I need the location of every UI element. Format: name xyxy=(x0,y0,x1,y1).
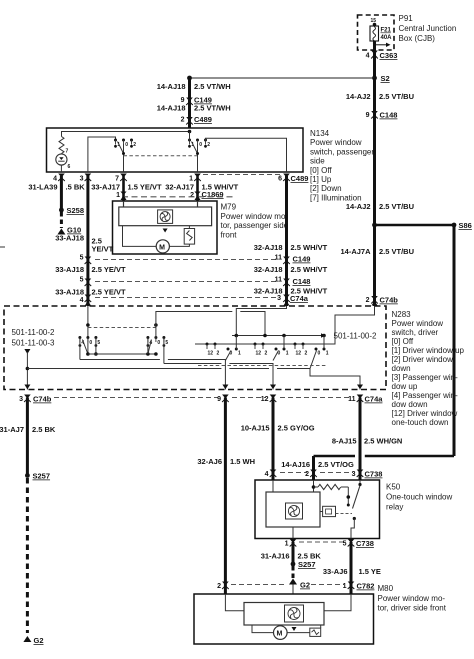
wire: L1 contact 5 drop xyxy=(95,338,97,355)
ground G2 (left) xyxy=(23,636,43,645)
wire: M80 pin 2 to armature xyxy=(225,594,244,611)
pin 1 exit (C489) xyxy=(189,174,201,183)
mechanical link (dashed) between switch poles xyxy=(124,155,198,157)
wire 14-AJ2 2.5 VT/BU (S2 down to C148) xyxy=(373,78,376,225)
svg-text:7: 7 xyxy=(66,149,69,155)
svg-text:33-AJ17: 33-AJ17 xyxy=(91,183,120,192)
node: VT/WH branch top xyxy=(187,76,192,81)
entry arrow M79 pin 1 xyxy=(121,195,127,200)
wire: breaker to armature xyxy=(188,226,190,229)
wire: M80 pin 1 to armature xyxy=(324,594,351,611)
C74b crossing pin 3 xyxy=(19,395,52,404)
mechanical link (dashed) switch L1-L2 xyxy=(88,327,156,329)
wire: armature to motor loop left xyxy=(123,226,157,247)
power window switch N283 (driver) dashed box xyxy=(4,306,386,390)
switch D3 (driver one-touch, contacts 12-2-0-1) xyxy=(294,343,329,369)
svg-text:1: 1 xyxy=(286,351,289,357)
label M79 power window motor passenger xyxy=(221,203,289,240)
entry arrow N283 pin 4 xyxy=(85,301,91,306)
svg-text:2.5 VT/BU: 2.5 VT/BU xyxy=(379,247,414,256)
connector C74b row below N283 (dashed) xyxy=(54,397,218,399)
svg-text:31-LA39: 31-LA39 xyxy=(28,183,57,192)
svg-text:Central Junction: Central Junction xyxy=(399,24,457,33)
C74a crossing pin 11 xyxy=(348,395,383,404)
ground G10 xyxy=(57,226,81,235)
svg-text:tor, passenger side: tor, passenger side xyxy=(221,221,289,230)
svg-text:2: 2 xyxy=(265,351,268,357)
M80 motor fan icon xyxy=(285,605,304,622)
svg-text:1: 1 xyxy=(285,541,289,548)
svg-text:P91: P91 xyxy=(399,14,414,23)
wire: switch 2 contact 2 to pin 6 xyxy=(206,138,287,172)
dashed boundary line (door shell, left) xyxy=(122,196,235,198)
node: fuse top junction xyxy=(373,23,377,27)
svg-text:Power window: Power window xyxy=(310,138,362,147)
label N134 power window switch passenger xyxy=(310,129,374,202)
svg-text:501-11-00-2: 501-11-00-2 xyxy=(12,328,56,337)
wire 8-AJ15 2.5 WH/GN (C74a pin 11 to K50 pin 3) xyxy=(359,398,362,481)
wire: breaker to armature (M80) xyxy=(320,625,322,628)
connector C74a row (dashed) xyxy=(95,297,276,299)
connector C782 row (dashed) xyxy=(231,584,286,586)
wires: pins into armature xyxy=(123,201,125,207)
resistor (illumination dropping) xyxy=(59,137,69,155)
svg-text:4: 4 xyxy=(265,471,269,478)
wire: S2 branch left to VT/WH drop xyxy=(190,77,375,79)
node S257 (left) xyxy=(25,472,50,481)
wire 31-AJ16 2.5 BK (K50 pin 1 to S257) xyxy=(292,542,295,564)
svg-text:0: 0 xyxy=(89,340,92,346)
svg-text:switch, driver: switch, driver xyxy=(392,328,439,337)
central junction box P91 (dashed enclosure) xyxy=(358,15,395,50)
wire: rail to pin 9 xyxy=(80,359,160,361)
svg-text:Power window mo-: Power window mo- xyxy=(378,594,446,603)
wire: S258 to G10 (dashed continuation) xyxy=(60,212,63,228)
svg-text:relay: relay xyxy=(386,503,403,512)
wire: coil to pin 1 xyxy=(292,527,294,539)
svg-text:M: M xyxy=(277,631,283,638)
svg-text:501-11-00-3: 501-11-00-3 xyxy=(12,339,56,348)
pin 6 exit C489 xyxy=(278,174,308,184)
svg-text:S86: S86 xyxy=(459,221,472,230)
svg-text:33-AJ18: 33-AJ18 xyxy=(55,234,84,243)
svg-text:5: 5 xyxy=(165,340,168,346)
svg-text:2.5 GY/OG: 2.5 GY/OG xyxy=(278,424,315,433)
switch D2 (driver, contacts 12-2-0-1) xyxy=(254,343,289,361)
entry arrow N283 pin 2 xyxy=(372,301,378,306)
svg-text:2.5 VT/BU: 2.5 VT/BU xyxy=(379,92,414,101)
svg-text:2.5 WH/VT: 2.5 WH/VT xyxy=(291,243,328,252)
svg-text:C489: C489 xyxy=(291,174,309,183)
C74a crossing pin 4 (YE/VT) xyxy=(80,295,92,305)
svg-text:1.5 YE: 1.5 YE xyxy=(359,567,381,576)
wire: S257 to G2 (dashed continuation) xyxy=(26,478,29,633)
svg-text:2: 2 xyxy=(181,117,185,124)
connector C489 pin 2 (top) xyxy=(181,115,212,125)
C738 crossing pin 5 xyxy=(343,539,374,548)
svg-text:[2] Driver window: [2] Driver window xyxy=(392,355,454,364)
svg-text:12: 12 xyxy=(256,351,262,357)
svg-text:One-touch window: One-touch window xyxy=(386,493,452,502)
node S257 (right) xyxy=(291,560,316,569)
svg-text:one-touch down: one-touch down xyxy=(392,418,449,427)
wire 32-AJ6 1.5 WH (N283 pin 9 to M80 pin 2) xyxy=(224,398,227,595)
svg-text:G2: G2 xyxy=(34,636,44,645)
svg-text:14-AJ2: 14-AJ2 xyxy=(346,92,371,101)
svg-text:11: 11 xyxy=(348,396,356,403)
svg-text:32-AJ6: 32-AJ6 xyxy=(197,457,222,466)
svg-text:2.5 BK: 2.5 BK xyxy=(32,425,56,434)
svg-text:7: 7 xyxy=(115,176,119,183)
fuse F21 40A xyxy=(370,26,392,41)
svg-text:C363: C363 xyxy=(380,51,398,60)
svg-text:12: 12 xyxy=(261,396,269,403)
svg-text:C74a: C74a xyxy=(290,294,309,303)
svg-text:6: 6 xyxy=(278,176,282,183)
C738 crossing pin 3 xyxy=(352,470,383,479)
svg-text:1: 1 xyxy=(116,192,120,199)
M79 armature block xyxy=(119,207,212,226)
K50 relay coil box xyxy=(266,492,320,527)
wire: S257 to G2 (dashed) xyxy=(292,566,295,579)
svg-text:C738: C738 xyxy=(365,470,383,479)
relay switch (one-touch contact) xyxy=(353,483,362,520)
connector C738 bottom row (dashed) xyxy=(299,541,344,543)
C782 crossing pin 2 xyxy=(217,582,229,591)
svg-text:3: 3 xyxy=(277,295,281,302)
svg-text:12: 12 xyxy=(296,351,302,357)
svg-text:0: 0 xyxy=(157,340,160,346)
connector crossing on YE/VT wire at C1869 row xyxy=(120,192,126,196)
svg-text:5: 5 xyxy=(80,255,84,262)
circuit breaker (M79) xyxy=(184,229,194,245)
connector C363 pin 4 xyxy=(366,51,398,61)
svg-text:2: 2 xyxy=(207,142,210,148)
svg-text:14-AJ7A: 14-AJ7A xyxy=(340,247,371,256)
svg-text:32-AJ18: 32-AJ18 xyxy=(254,243,283,252)
wire 31-LA39 .5 BK (pin 4 to S258) xyxy=(60,176,63,210)
circuit breaker (M80) xyxy=(310,628,321,636)
svg-text:.5 BK: .5 BK xyxy=(66,183,86,192)
svg-text:4: 4 xyxy=(53,176,57,183)
label M80 power window motor driver xyxy=(378,584,447,613)
exit arrow N283 pin 9 xyxy=(222,385,228,390)
C738 crossing pin 2 xyxy=(305,470,317,479)
svg-text:2: 2 xyxy=(133,142,136,148)
svg-text:9: 9 xyxy=(366,112,370,119)
wire: N283 pin 4 riser to driver-pass switch xyxy=(87,306,89,354)
svg-text:1.5 WH: 1.5 WH xyxy=(230,457,255,466)
svg-text:0: 0 xyxy=(318,351,321,357)
svg-text:switch, passenger: switch, passenger xyxy=(310,147,374,156)
wire: armature to motor loop left (M80) xyxy=(252,625,273,633)
svg-text:4: 4 xyxy=(80,297,84,304)
label N283 power window switch driver xyxy=(392,310,465,427)
svg-text:2.5 YE/VT: 2.5 YE/VT xyxy=(92,265,126,274)
connector C74b pin 2 xyxy=(366,296,399,305)
svg-text:14-AJ18: 14-AJ18 xyxy=(157,82,186,91)
wire: pin 3 riser to switch 1 contact 1 xyxy=(88,137,116,172)
svg-text:N134: N134 xyxy=(310,129,330,138)
power window motor M80 box xyxy=(194,594,374,644)
svg-text:4: 4 xyxy=(366,53,370,60)
svg-text:S257: S257 xyxy=(33,472,51,481)
svg-text:M79: M79 xyxy=(221,203,237,212)
svg-text:3: 3 xyxy=(19,396,23,403)
svg-text:501-11-00-2: 501-11-00-2 xyxy=(334,332,378,341)
connector C148 pin 9 xyxy=(366,111,398,120)
motor M (passenger) xyxy=(156,240,169,253)
switch 1 (window up/down, contacts 1-0-2) xyxy=(114,139,136,154)
K50 coil fan icon xyxy=(286,503,303,519)
svg-text:0: 0 xyxy=(125,142,128,148)
motor M (driver) xyxy=(274,626,288,640)
svg-text:C74b: C74b xyxy=(380,296,399,305)
switch L2 (passenger window, contacts 4-0-5) xyxy=(146,336,168,354)
svg-text:1: 1 xyxy=(343,583,347,590)
svg-text:33-AJ18: 33-AJ18 xyxy=(55,265,84,274)
svg-text:8-AJ15: 8-AJ15 xyxy=(332,437,357,446)
node: entry junction inside N134 xyxy=(188,130,192,134)
svg-text:[1] Up: [1] Up xyxy=(310,175,332,184)
svg-text:Power window: Power window xyxy=(392,319,444,328)
svg-text:14-AJ16: 14-AJ16 xyxy=(281,460,310,469)
svg-text:1: 1 xyxy=(189,176,193,183)
connector C149 pin 9 xyxy=(181,96,212,106)
C149 crossing pin 5 (YE/VT) xyxy=(80,255,92,265)
label 501-11-00-2 / 501-11-00-3 (left refs) xyxy=(12,328,56,348)
node: S86 branch junction xyxy=(372,223,377,228)
svg-text:[3] Passenger win-: [3] Passenger win- xyxy=(392,373,459,382)
svg-text:dow up: dow up xyxy=(392,382,418,391)
power window switch N134 (passenger side) box xyxy=(47,128,304,172)
wire 14-AJ16 2.5 VT/OG (S86 branch to K50 pin 2) xyxy=(312,456,315,480)
resistor (K50) xyxy=(314,484,349,489)
wire: resistor branch to fixed contact xyxy=(347,487,349,505)
svg-text:front: front xyxy=(221,230,238,239)
svg-text:S257: S257 xyxy=(298,560,316,569)
one-touch window relay K50 box xyxy=(255,480,380,539)
svg-text:2: 2 xyxy=(217,351,220,357)
svg-text:M: M xyxy=(159,244,165,251)
exit arrow N283 pin 12 xyxy=(270,385,276,390)
svg-text:1: 1 xyxy=(238,351,241,357)
wire: N134 internal feed rail xyxy=(62,132,190,137)
wire 33-AJ17 1.5 YE/VT (N134 pin 7 to M79 pin 1) xyxy=(122,176,125,201)
entry arrow N283 pin 3 xyxy=(284,301,290,306)
svg-text:C738: C738 xyxy=(356,539,374,548)
svg-text:40A: 40A xyxy=(381,35,393,41)
wire: fuse to C363 to S2 (VT/BU feed) xyxy=(373,41,376,78)
svg-text:C74b: C74b xyxy=(33,395,52,404)
connector C738 top row (dashed) xyxy=(280,472,307,474)
svg-text:C489: C489 xyxy=(194,115,212,124)
svg-text:0: 0 xyxy=(199,142,202,148)
svg-text:C1869: C1869 xyxy=(202,190,224,199)
wire: L1 contact 4 drop xyxy=(79,338,81,360)
svg-text:[7] Illumination: [7] Illumination xyxy=(310,193,362,202)
svg-text:14-AJ18: 14-AJ18 xyxy=(157,104,186,113)
svg-text:C148: C148 xyxy=(380,111,398,120)
wire: D2 contact 1 riser xyxy=(283,336,285,350)
crossing pin 9 xyxy=(217,395,229,404)
svg-text:2: 2 xyxy=(217,583,221,590)
wire 31-AJ7 2.5 BK (N283 pin 3 to S257) xyxy=(26,398,29,476)
wire: N283 pin 2 feed (one-touch rail) xyxy=(195,306,375,344)
svg-text:2.5 YE/VT: 2.5 YE/VT xyxy=(92,288,126,297)
wire: D1 contact 1 riser xyxy=(235,336,237,350)
wire S86 vertical right edge down xyxy=(453,225,456,456)
svg-text:14-AJ2: 14-AJ2 xyxy=(346,202,371,211)
wire: lamp to pin 4 xyxy=(60,165,62,172)
svg-text:2.5 WH/VT: 2.5 WH/VT xyxy=(291,265,328,274)
svg-text:dow down: dow down xyxy=(392,400,428,409)
svg-text:side: side xyxy=(310,157,325,166)
svg-text:[0] Off: [0] Off xyxy=(392,337,414,346)
svg-text:F21: F21 xyxy=(381,28,392,34)
brush mark under armature xyxy=(163,229,168,233)
svg-text:2: 2 xyxy=(305,471,309,478)
wire: G2 to M80 case xyxy=(292,585,294,595)
M79 motor fan icon xyxy=(158,210,173,224)
switch 2 (contacts 1-0-2) xyxy=(188,139,210,154)
svg-text:33-AJ18: 33-AJ18 xyxy=(55,288,84,297)
node S2 xyxy=(372,74,390,83)
svg-text:2.5 VT/WH: 2.5 VT/WH xyxy=(194,82,231,91)
arrow to other circuits (left) xyxy=(24,349,30,354)
svg-text:11: 11 xyxy=(275,255,283,262)
switch L1 (passenger window, contacts 4-0-5) xyxy=(78,336,100,354)
svg-text:down: down xyxy=(392,364,411,373)
svg-text:9: 9 xyxy=(217,396,221,403)
wire: L2 center riser to top rail xyxy=(156,312,232,338)
M80 armature block xyxy=(244,603,324,626)
mechanical link (dashed) D1-D2-D3 xyxy=(198,365,326,367)
wire: L2 contact 5 drop to rail xyxy=(163,338,165,364)
svg-text:M80: M80 xyxy=(378,584,394,593)
svg-text:2: 2 xyxy=(190,192,194,199)
svg-text:C782: C782 xyxy=(357,582,375,591)
svg-text:C149: C149 xyxy=(293,255,311,264)
wire: left ref down to ground rail xyxy=(26,352,28,390)
wire: feed rail with arrow 501-11-00-2 xyxy=(232,332,377,341)
wire: K50 pin 3 to switch pivot xyxy=(359,480,361,485)
svg-text:6: 6 xyxy=(68,164,71,170)
node S86 xyxy=(452,221,472,230)
wire: rail to pin 12 xyxy=(164,363,222,365)
wire: motor to breaker xyxy=(169,244,189,246)
svg-text:Box (CJB): Box (CJB) xyxy=(399,34,436,43)
connector C148 row (dashed) xyxy=(95,281,279,283)
svg-text:32-AJ17: 32-AJ17 xyxy=(165,183,194,192)
svg-text:32-AJ18: 32-AJ18 xyxy=(254,265,283,274)
node S258 xyxy=(59,206,84,215)
svg-text:2.5 VT/BU: 2.5 VT/BU xyxy=(379,202,414,211)
wire 14-AJ18 2.5 VT/WH (to N134 pin 2) xyxy=(188,78,191,128)
connector C1869 xyxy=(194,190,223,199)
svg-text:10-AJ15: 10-AJ15 xyxy=(241,424,270,433)
svg-text:[1] Driver window up: [1] Driver window up xyxy=(392,346,465,355)
wire: K50 pin 4 into coil xyxy=(272,480,274,492)
wire S86 branch horizontal to relay xyxy=(365,455,454,458)
wire: D3 contact riser to feed rail xyxy=(323,336,325,350)
wire 10-AJ15 2.5 GY/OG (N283 pin 12 to K50 pin 4) xyxy=(272,398,275,481)
connector C489 row at N134 bottom (dashed) xyxy=(195,174,283,176)
svg-text:C148: C148 xyxy=(293,277,311,286)
pin 7 exit (C489) xyxy=(115,174,127,183)
svg-text:YE/VT: YE/VT xyxy=(92,245,114,254)
wire: switch 2 common to pin 1 xyxy=(197,144,199,172)
C148 crossing pin 11 (WH/VT) xyxy=(275,277,311,287)
label P91 Central Junction Box xyxy=(399,14,457,43)
wire: N283 pin 3 feed to one-touch rail xyxy=(236,306,286,336)
wire 33-AJ18 2.5 YE/VT (N134 pin 3 down to N283 pin 4) xyxy=(86,176,89,306)
solenoid actuator (K50) xyxy=(320,506,352,516)
wire: K50 pin 2 into coil xyxy=(313,480,315,492)
svg-text:3: 3 xyxy=(352,471,356,478)
svg-text:2.5 WH/GN: 2.5 WH/GN xyxy=(364,437,402,446)
left edge tick xyxy=(0,246,5,248)
switch D1 (driver, contacts 12-2-0-1) xyxy=(206,343,242,361)
C738 crossing pin 1 xyxy=(285,539,297,548)
svg-text:G2: G2 xyxy=(300,581,310,590)
svg-text:K50: K50 xyxy=(386,483,401,492)
svg-text:[2] Down: [2] Down xyxy=(310,184,342,193)
svg-text:5: 5 xyxy=(343,541,347,548)
crossing pin 12 xyxy=(261,395,277,404)
ground G2 (center) xyxy=(289,579,310,590)
wire: switch to pin 5 xyxy=(351,519,354,539)
C738 crossing pin 4 xyxy=(265,470,277,479)
wire: switch 1 common to pin 7 xyxy=(123,144,125,172)
pin 4 exit (C489) xyxy=(53,174,65,183)
svg-text:11: 11 xyxy=(275,277,283,284)
svg-text:1.5 YE/VT: 1.5 YE/VT xyxy=(128,183,162,192)
svg-text:5: 5 xyxy=(97,340,100,346)
wire 14-AJ7A 2.5 VT/BU (junction down to C74b) xyxy=(373,225,376,306)
label K50 one-touch window relay xyxy=(386,483,452,512)
arrow: fuse output to other circuits xyxy=(373,41,391,47)
pin 3 exit (C489) xyxy=(80,174,92,183)
wire 33-AJ6 1.5 YE (K50 pin 5 to M80 pin 1) xyxy=(350,542,353,594)
power window motor M79 box xyxy=(113,201,218,254)
wire 32-AJ18 2.5 WH/VT (N134 pin 6 down to N283 pin 3) xyxy=(285,176,288,306)
svg-text:31-AJ16: 31-AJ16 xyxy=(261,552,290,561)
wire: ground rail across N283 xyxy=(27,368,221,370)
brush mark under M80 armature xyxy=(292,627,297,631)
wire 32-AJ17 1.5 WH/VT (N134 pin 1 to M79 pin 2) xyxy=(196,176,199,201)
svg-text:Power window mo-: Power window mo- xyxy=(221,212,289,221)
svg-text:2: 2 xyxy=(366,297,370,304)
svg-text:tor, driver side front: tor, driver side front xyxy=(378,604,447,613)
svg-text:S2: S2 xyxy=(381,74,390,83)
svg-text:2.5 VT/WH: 2.5 VT/WH xyxy=(194,104,231,113)
svg-text:33-AJ6: 33-AJ6 xyxy=(323,567,348,576)
svg-text:[12] Driver window: [12] Driver window xyxy=(392,409,458,418)
wire: motor to breaker (M80) xyxy=(287,632,310,634)
svg-text:12: 12 xyxy=(208,351,214,357)
exit arrow N283 pin 11 xyxy=(357,385,363,390)
svg-text:2: 2 xyxy=(305,351,308,357)
svg-text:3: 3 xyxy=(80,176,84,183)
wire: entry stub to switch 2 contact 1 xyxy=(189,132,191,141)
exit arrow N283 pin 3 (bottom left) xyxy=(24,385,30,390)
C782 crossing pin 1 xyxy=(343,582,375,591)
svg-text:N283: N283 xyxy=(392,310,412,319)
svg-text:[4] Passenger win-: [4] Passenger win- xyxy=(392,391,459,400)
svg-text:C74a: C74a xyxy=(365,395,384,404)
entry arrow M79 pin 2 xyxy=(195,195,201,200)
